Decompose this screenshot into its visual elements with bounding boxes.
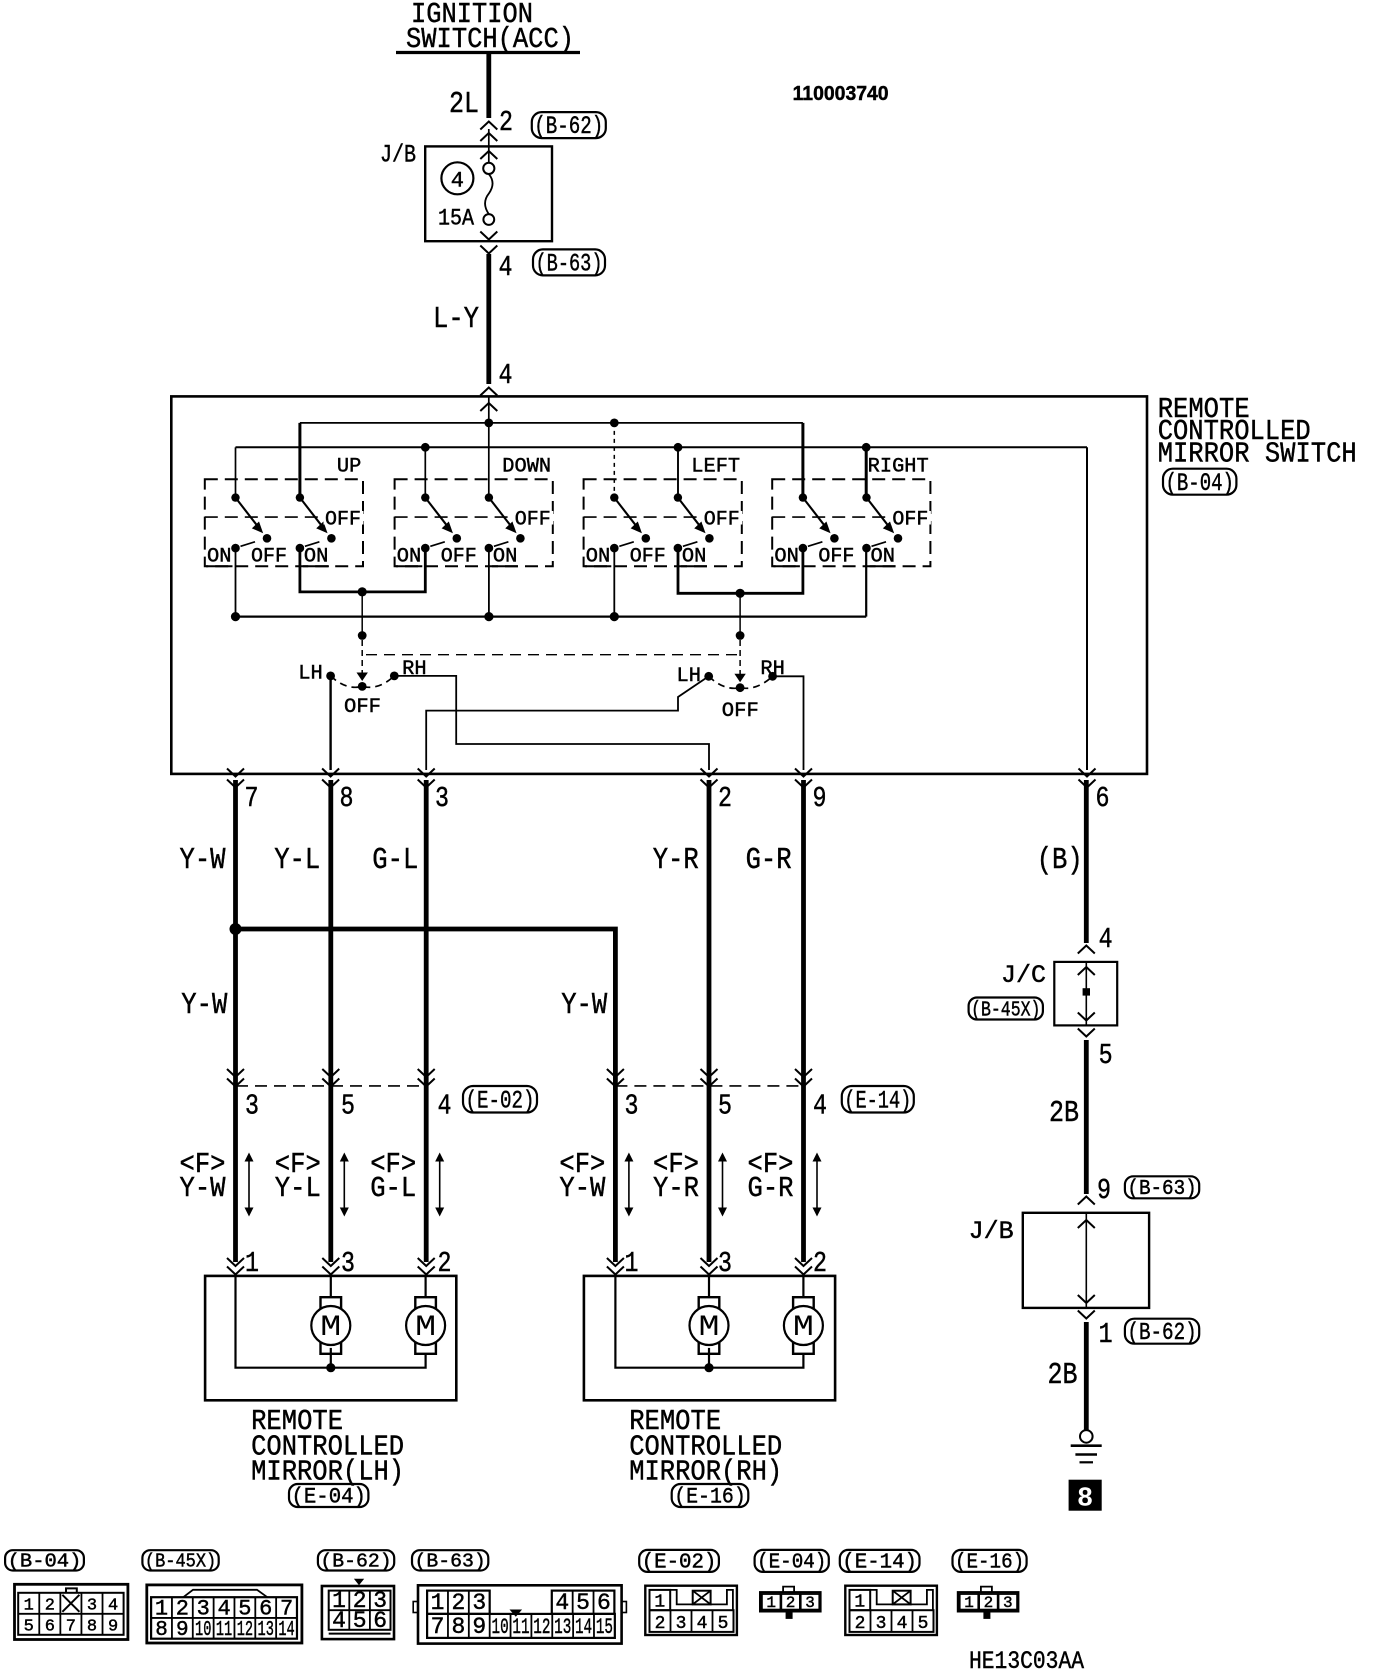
svg-text:Y-L: Y-L: [274, 843, 320, 878]
svg-text:2: 2: [655, 1614, 666, 1634]
connector label B-62 (right): [1125, 1319, 1199, 1344]
svg-text:(E-02): (E-02): [642, 1552, 717, 1575]
svg-text:OFF: OFF: [704, 509, 740, 532]
junction block J/B box (right): [1023, 1213, 1149, 1308]
LH motor2 return wire: [331, 1355, 426, 1368]
UP right pole common contact: [296, 493, 304, 501]
svg-text:ON: ON: [586, 546, 611, 569]
wire Y-W branch to right mirror (thick): [236, 929, 616, 1262]
LEFT left pole ON contact: [610, 544, 619, 553]
svg-text:4: 4: [499, 251, 513, 284]
DOWN-right ON drop to common bus: [488, 548, 490, 617]
svg-text:RH: RH: [402, 658, 427, 681]
mechanical link dashed line between selectors: [366, 654, 740, 656]
mirror switch pin 9 exit chevrons: [795, 769, 812, 777]
svg-text:(E-16): (E-16): [674, 1485, 746, 1510]
svg-text:3: 3: [805, 1594, 815, 1612]
feed wire from pin 4 inside switch: [488, 396, 490, 497]
svg-text:UP: UP: [337, 456, 361, 479]
mirror pin 2 chevrons: [795, 1258, 812, 1266]
UP left pole arm: [236, 498, 259, 528]
connector face B-62: [354, 1579, 364, 1586]
switch unit LEFT dashed box: [584, 479, 742, 566]
svg-text:Y-W: Y-W: [180, 1172, 227, 1205]
connector E-02 dashed line: [236, 1085, 427, 1087]
mirror switch pin 3 exit chevrons: [418, 769, 435, 777]
UP left pole ON throw line: [241, 542, 256, 547]
connector label E-14: [842, 1086, 914, 1113]
RIGHT right pole arm: [867, 498, 890, 528]
mirror pin 1 chevrons: [607, 1258, 624, 1266]
selector centre contact (LH/RH selector 1): [358, 682, 367, 691]
svg-text:14: 14: [575, 1615, 592, 1640]
connector label E-02: [463, 1086, 537, 1113]
svg-text:Y-W: Y-W: [181, 988, 227, 1023]
connector label E-04: [289, 1484, 368, 1507]
svg-text:OFF: OFF: [344, 696, 381, 719]
mirror pin 1 chevrons: [227, 1258, 244, 1266]
svg-text:MIRROR SWITCH: MIRROR SWITCH: [1158, 438, 1357, 471]
svg-text:1: 1: [24, 1596, 34, 1615]
mirror pin 3 chevrons: [322, 1258, 339, 1266]
wire L-Y from J/B to mirror switch (thick): [486, 254, 491, 384]
connector face E-16: [981, 1587, 992, 1593]
selector 2 feed junction dot: [736, 631, 745, 640]
UP left pole common contact: [231, 493, 239, 501]
RIGHT right pole ON throw line: [872, 542, 887, 547]
LH motor M1: [321, 1297, 342, 1354]
svg-text:LEFT: LEFT: [691, 456, 740, 479]
mirror switch pin 7 exit chevrons: [227, 769, 244, 777]
junction ground bus / RIGHT switch: [862, 443, 871, 452]
UP right pole OFF contact: [327, 534, 336, 543]
switch unit LEFT centre dashed line: [584, 516, 742, 518]
DOWN right pole ON throw line: [494, 542, 509, 547]
RIGHT left pole common contact: [799, 493, 807, 501]
connector label B-63: [533, 249, 605, 275]
svg-text:5: 5: [576, 1590, 590, 1616]
svg-text:1: 1: [431, 1590, 445, 1616]
LEFT right pole common contact: [674, 493, 682, 501]
RH motor2 feed wire: [802, 1276, 804, 1300]
svg-text:3: 3: [472, 1590, 486, 1616]
svg-text:8: 8: [340, 782, 354, 815]
common output bus (to pin 7): [236, 615, 867, 617]
svg-text:ON: ON: [493, 546, 518, 569]
svg-text:OFF: OFF: [251, 546, 287, 569]
fuse number circle 4: [441, 162, 473, 194]
svg-text:(E-14): (E-14): [844, 1086, 911, 1115]
UP left pole OFF contact: [263, 534, 272, 543]
RIGHT left pole ON throw line: [808, 542, 823, 547]
label OFF upper (RIGHT): [891, 511, 931, 525]
svg-text:J/C: J/C: [1001, 961, 1046, 990]
RH motor1 return to junction: [708, 1348, 710, 1368]
DOWN right pole OFF contact: [516, 534, 525, 543]
wire through J/C: [1085, 962, 1087, 1026]
svg-text:9: 9: [176, 1619, 189, 1642]
svg-text:5: 5: [718, 1614, 729, 1634]
connector face label E-04: [755, 1550, 829, 1572]
LH motor1 feed wire: [330, 1276, 332, 1300]
svg-text:OFF: OFF: [515, 509, 551, 532]
connector label B-62: [532, 112, 606, 138]
direction arrow beside Y-W: [628, 1158, 630, 1211]
svg-text:ON: ON: [304, 546, 329, 569]
svg-text:Y-R: Y-R: [653, 1172, 699, 1205]
connector E-02 chevrons at x=426.2: [418, 1069, 435, 1077]
mirror pin 3 chevrons: [701, 1258, 718, 1266]
DOWN right pole arm: [489, 498, 512, 528]
connector E-14 dashed line: [615, 1085, 803, 1087]
wire Y-W (pin 7, thick): [233, 780, 238, 1262]
svg-text:6: 6: [1096, 782, 1110, 815]
RIGHT right pole OFF contact: [894, 534, 903, 543]
wire Y-R (pin 2, thick): [707, 780, 712, 1262]
wire through J/B: [1085, 1213, 1087, 1308]
svg-text:9: 9: [1097, 1174, 1111, 1207]
LEFT-left ON drop to common bus: [613, 548, 615, 617]
connector E-14 chevrons at x=803.5: [795, 1069, 812, 1077]
svg-text:1: 1: [155, 1596, 168, 1621]
svg-text:3: 3: [876, 1614, 887, 1634]
wire Y-L (pin 8, thick): [328, 780, 333, 1262]
svg-text:G-R: G-R: [748, 1172, 794, 1205]
UP switch feeder left (ground bus corner): [235, 447, 237, 497]
svg-text:1: 1: [1099, 1318, 1113, 1351]
svg-text:OFF: OFF: [630, 546, 666, 569]
switch unit DOWN dashed box: [395, 479, 553, 566]
svg-text:5: 5: [918, 1614, 929, 1634]
RIGHT left pole arm: [803, 498, 826, 528]
remote controlled mirror switch outline box B-04: [171, 396, 1147, 774]
label OFF upper (UP): [324, 511, 364, 525]
svg-text:2L: 2L: [449, 87, 479, 122]
ground point number 8 (black box): [1069, 1480, 1102, 1511]
wire G-L (pin 3, thick): [424, 780, 429, 1262]
svg-text:Y-W: Y-W: [559, 1172, 606, 1205]
connector label B-63 (right): [1125, 1176, 1199, 1198]
LEFT/RIGHT output link bus: [678, 548, 803, 593]
UP-left ON drop to common bus: [235, 548, 237, 617]
svg-text:7: 7: [280, 1596, 293, 1621]
label OFF upper (LEFT): [702, 511, 742, 525]
svg-text:OFF: OFF: [325, 509, 361, 532]
connector face B-04: [15, 1584, 128, 1639]
svg-text:15: 15: [596, 1615, 613, 1640]
svg-text:4: 4: [697, 1614, 708, 1634]
vertical selector feed wire: [361, 592, 363, 636]
LEFT left pole common contact: [610, 493, 618, 501]
connector B-63 pin 4 chevron: [480, 246, 497, 254]
remote controlled mirror LH box: [205, 1276, 456, 1400]
J/C exit chevrons: [1078, 1013, 1095, 1021]
svg-text:ON: ON: [871, 546, 896, 569]
svg-text:G-L: G-L: [372, 843, 418, 878]
direction arrow beside Y-L: [343, 1158, 345, 1211]
wire ground bus to pin 6: [1086, 447, 1088, 770]
svg-text:3: 3: [87, 1596, 97, 1615]
svg-text:3: 3: [435, 782, 449, 815]
svg-text:(B-63): (B-63): [536, 250, 603, 278]
wire selector2 LH to pin 3: [426, 676, 709, 770]
label OFF upper (DOWN): [513, 511, 553, 525]
connector label B-04: [1163, 469, 1236, 495]
svg-text:ON: ON: [774, 546, 799, 569]
wire into J/B: [488, 129, 490, 163]
LEFT right pole ON contact: [674, 544, 683, 553]
connector E-14 chevrons at x=615.4: [607, 1069, 624, 1077]
svg-text:ON: ON: [207, 546, 232, 569]
junction common bus LEFT: [610, 612, 619, 621]
svg-text:ON: ON: [397, 546, 422, 569]
connector face label E-02: [639, 1550, 719, 1572]
DOWN left pole ON contact: [421, 544, 430, 553]
DOWN left pole arm: [425, 498, 448, 528]
svg-text:7: 7: [245, 782, 259, 815]
ignition switch bus bar: [396, 51, 580, 54]
svg-text:11: 11: [216, 1619, 232, 1642]
svg-text:6: 6: [373, 1608, 387, 1634]
svg-text:8: 8: [451, 1614, 465, 1640]
connector face label E-14: [840, 1550, 920, 1572]
connector E-02 chevrons at x=235.5: [227, 1069, 244, 1077]
connector face B-63: [418, 1585, 622, 1643]
connector face B-45X: [147, 1585, 302, 1643]
selector arrow onto centre contact: [357, 673, 368, 682]
svg-text:4: 4: [499, 359, 513, 392]
switch unit RIGHT centre dashed line: [772, 516, 930, 518]
switch unit UP dashed box: [205, 479, 363, 566]
svg-text:2: 2: [855, 1614, 866, 1634]
svg-text:13: 13: [258, 1619, 274, 1642]
svg-text:8: 8: [87, 1617, 97, 1636]
svg-text:(B-62): (B-62): [1127, 1320, 1196, 1347]
svg-text:5: 5: [24, 1617, 34, 1636]
svg-text:12: 12: [237, 1619, 253, 1642]
svg-text:2: 2: [984, 1594, 994, 1612]
svg-text:5: 5: [718, 1090, 732, 1123]
J/B exit chevrons (right): [1078, 1295, 1095, 1303]
selector feed junction dot: [358, 631, 367, 640]
remote controlled mirror RH box: [584, 1276, 835, 1400]
wire (B) ground (pin 6, thick): [1084, 780, 1089, 943]
DOWN left pole common contact: [421, 493, 429, 501]
connector face E-14: [845, 1586, 937, 1635]
svg-text:4: 4: [217, 1596, 230, 1621]
svg-text:(E-14): (E-14): [842, 1552, 917, 1575]
junction ground bus / DOWN switch: [421, 443, 430, 452]
svg-text:4: 4: [438, 1090, 452, 1123]
J/B exit chevron: [480, 232, 497, 240]
DOWN right pole common contact: [485, 493, 493, 501]
svg-text:M: M: [320, 1311, 341, 1345]
wire 2L from ignition switch to J/B (thick): [486, 53, 491, 119]
svg-text:(B-62): (B-62): [534, 113, 603, 141]
connector B-62 pin 2 chevrons: [480, 122, 497, 130]
svg-text:4: 4: [813, 1090, 827, 1123]
LEFT right pole OFF contact: [705, 534, 714, 543]
svg-text:9: 9: [108, 1617, 118, 1636]
body ground symbol: [1080, 1430, 1093, 1443]
svg-text:Y-W: Y-W: [561, 988, 607, 1023]
svg-text:11: 11: [512, 1615, 529, 1640]
wire selector2 RH to pin 9: [773, 676, 804, 770]
svg-text:2: 2: [786, 1594, 796, 1612]
connector face label B-04: [5, 1550, 84, 1570]
junction feed bus / LEFT switch: [610, 419, 619, 428]
LEFT left pole arm: [614, 498, 637, 528]
svg-text:(B-62): (B-62): [320, 1551, 391, 1573]
svg-text:J/B: J/B: [380, 141, 416, 170]
LH motor M2: [415, 1297, 436, 1354]
direction arrow beside Y-R: [722, 1158, 724, 1211]
svg-text:2: 2: [45, 1596, 55, 1615]
junction ground bus / LEFT switch: [674, 443, 683, 452]
RIGHT right pole ON contact: [862, 544, 871, 553]
RH motor M2: [793, 1297, 814, 1354]
LH motor1 return to junction: [330, 1348, 332, 1368]
selector 1 RH contact: [390, 672, 399, 681]
wire selector1 RH to pin 2: [394, 676, 709, 770]
svg-text:2B: 2B: [1049, 1096, 1079, 1131]
svg-text:5: 5: [238, 1596, 251, 1621]
svg-text:13: 13: [554, 1615, 571, 1640]
svg-text:6: 6: [597, 1590, 611, 1616]
svg-text:3: 3: [625, 1090, 639, 1123]
RH motor1 feed wire: [708, 1276, 710, 1300]
svg-text:OFF: OFF: [818, 546, 854, 569]
wire 2B to ground (thick): [1084, 1322, 1089, 1430]
LH motor2 feed wire: [425, 1276, 427, 1300]
svg-text:9: 9: [813, 782, 827, 815]
svg-text:8: 8: [1077, 1485, 1093, 1515]
RH motor2 return wire: [709, 1355, 803, 1368]
junction LEFT/RIGHT output: [736, 589, 745, 598]
selector 2 arrow onto centre contact: [734, 674, 745, 683]
UP switch feeder right (feed bus corner, thick): [298, 423, 301, 498]
svg-text:3: 3: [245, 1090, 259, 1123]
junction block J/B box: [425, 146, 552, 241]
svg-text:(B-63): (B-63): [415, 1551, 486, 1573]
svg-text:J/B: J/B: [969, 1217, 1014, 1246]
svg-text:(E-16): (E-16): [955, 1552, 1024, 1575]
svg-text:HE13C03AA: HE13C03AA: [969, 1647, 1084, 1674]
connector E-02 chevrons at x=330.8: [322, 1069, 339, 1077]
svg-text:(B-45X): (B-45X): [971, 999, 1040, 1022]
RIGHT switch feeder right (thick): [865, 447, 868, 497]
selector feed continues to moving contact: [361, 640, 363, 674]
ground bus upper: [236, 446, 1088, 448]
fuse F4 element: [483, 163, 494, 174]
svg-text:OFF: OFF: [441, 546, 477, 569]
selector 1 LH contact: [326, 672, 335, 681]
svg-text:3: 3: [197, 1596, 210, 1621]
wire selector1 LH to pin 8: [329, 676, 331, 770]
svg-text:14: 14: [278, 1619, 294, 1642]
svg-text:2: 2: [499, 106, 513, 139]
svg-text:5: 5: [353, 1608, 367, 1634]
svg-text:4: 4: [332, 1608, 346, 1634]
DOWN switch feeder left: [424, 447, 426, 497]
RIGHT right pole common contact: [862, 493, 870, 501]
svg-text:6: 6: [259, 1596, 272, 1621]
selector 2 RH contact: [768, 672, 777, 681]
svg-text:M: M: [793, 1311, 814, 1345]
svg-text:G-L: G-L: [370, 1172, 416, 1205]
svg-text:2: 2: [718, 782, 732, 815]
RH motor M1: [699, 1297, 720, 1354]
feed bus upper: [300, 422, 803, 424]
svg-text:3: 3: [676, 1614, 687, 1634]
svg-text:RH: RH: [760, 658, 785, 681]
LH junction at motor1 return: [326, 1363, 335, 1372]
LEFT left pole ON throw line: [619, 542, 634, 547]
direction arrow beside Y-W: [248, 1158, 250, 1211]
svg-text:G-R: G-R: [746, 843, 792, 878]
connector E-14 chevrons at x=709: [701, 1069, 718, 1077]
LEFT right pole arm: [678, 498, 701, 528]
svg-text:Y-R: Y-R: [653, 843, 699, 878]
UP/DOWN output link bus: [300, 548, 425, 592]
svg-text:7: 7: [66, 1617, 76, 1636]
vertical selector 2 feed wire: [739, 593, 741, 635]
svg-text:4: 4: [1099, 923, 1113, 956]
joint connector J/C box: [1054, 962, 1117, 1026]
J/B entry chevrons (right): [1078, 1197, 1095, 1205]
svg-text:(E-04): (E-04): [757, 1552, 826, 1575]
svg-text:5: 5: [1099, 1039, 1113, 1072]
switch unit DOWN centre dashed line: [395, 516, 553, 518]
LEFT switch feeder left (dotted): [613, 423, 615, 498]
connector label E-16: [672, 1484, 749, 1507]
svg-text:2B: 2B: [1048, 1358, 1078, 1393]
svg-text:4: 4: [108, 1596, 118, 1615]
mirror switch pin 8 exit chevrons: [322, 769, 339, 777]
mirror switch pin 2 exit chevrons: [701, 769, 718, 777]
junction common bus DOWN: [484, 612, 493, 621]
svg-text:(B-04): (B-04): [8, 1551, 82, 1573]
svg-text:10: 10: [195, 1619, 211, 1642]
svg-text:(B-63): (B-63): [1127, 1178, 1196, 1201]
svg-text:OFF: OFF: [892, 509, 928, 532]
RIGHT left pole ON contact: [799, 544, 808, 553]
J/C internal joint (filled square): [1083, 988, 1090, 995]
svg-text:5: 5: [341, 1090, 355, 1123]
svg-text:M: M: [415, 1311, 436, 1345]
svg-text:(E-04): (E-04): [292, 1485, 366, 1510]
wire 2B J/C to J/B (thick): [1084, 1040, 1089, 1194]
connector label B-45X: [969, 998, 1043, 1020]
svg-text:(B-04): (B-04): [1166, 470, 1234, 498]
svg-text:Y-W: Y-W: [180, 843, 226, 878]
svg-text:4: 4: [897, 1614, 908, 1634]
svg-text:7: 7: [431, 1614, 445, 1640]
svg-text:LH: LH: [298, 663, 323, 686]
UP right pole ON throw line: [305, 542, 320, 547]
UP left pole ON contact: [231, 544, 240, 553]
svg-text:ON: ON: [682, 546, 707, 569]
LEFT switch feeder right: [677, 447, 679, 497]
selector 2 LH contact: [704, 672, 713, 681]
svg-text:DOWN: DOWN: [502, 456, 551, 479]
J/B entry chevron: [480, 151, 497, 159]
RH junction at motor1 return: [704, 1363, 713, 1372]
switch unit UP centre dashed line: [205, 516, 363, 518]
svg-text:RIGHT: RIGHT: [868, 456, 929, 479]
selector 2 feed continues: [739, 640, 741, 675]
connector face label B-63: [412, 1550, 488, 1570]
